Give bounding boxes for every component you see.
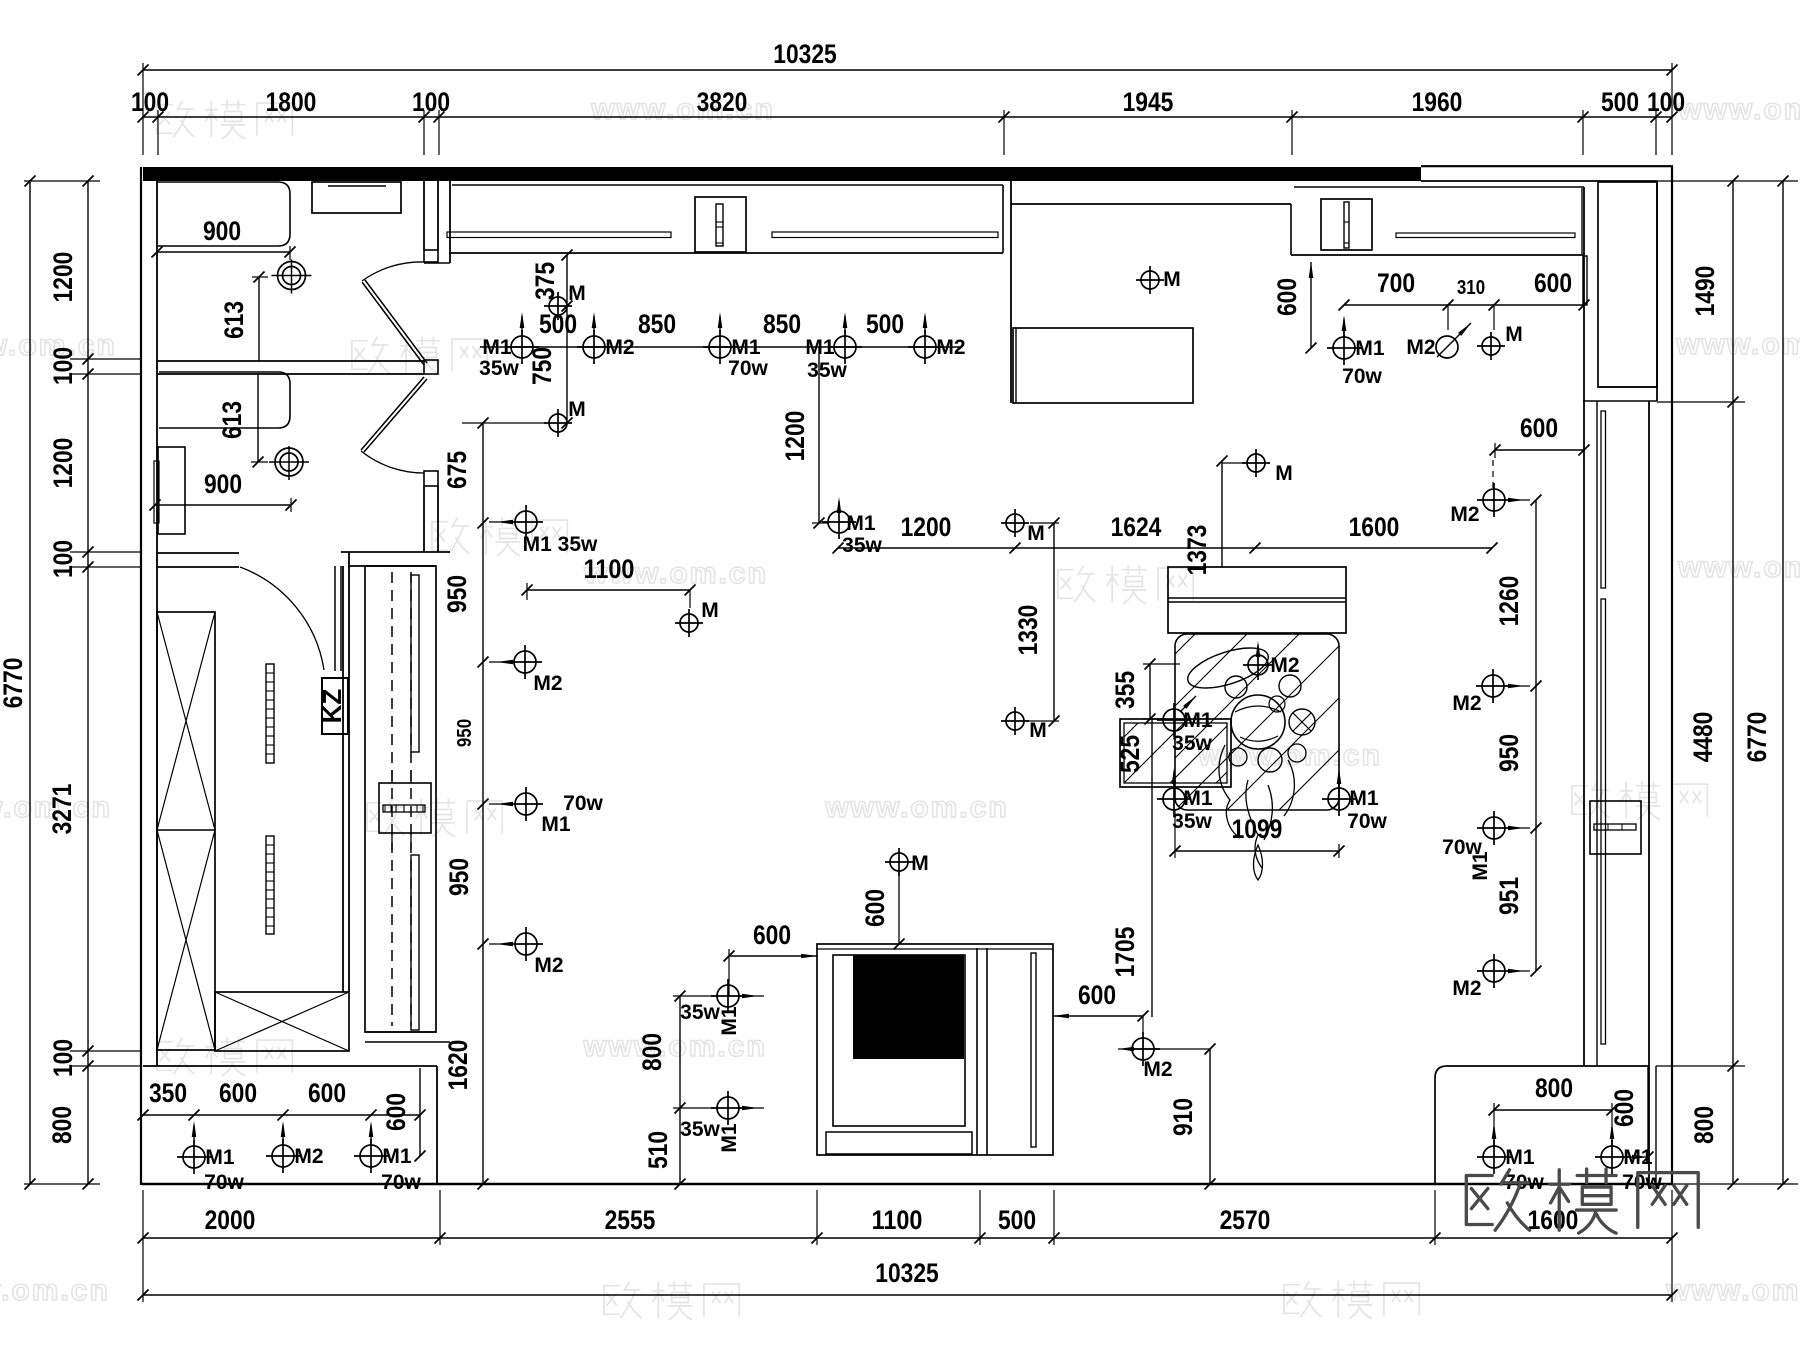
- svg-text:M: M: [1029, 719, 1047, 742]
- lamp M1 35w sofa-b: [1163, 788, 1185, 810]
- wall entry right x437: [436, 1066, 438, 1184]
- sofa sideboard table: [1168, 567, 1346, 633]
- svg-text:800: 800: [637, 1033, 667, 1071]
- lamp M2 right-col-a: [1483, 489, 1505, 511]
- lamp M 1100: [680, 614, 698, 632]
- dim 600 cab vertical: [1310, 262, 1312, 348]
- svg-text:M: M: [568, 282, 586, 305]
- lamp M2 fp: [1132, 1038, 1154, 1060]
- watermark dark large: [1466, 1169, 1698, 1233]
- svg-text:2555: 2555: [605, 1205, 656, 1235]
- svg-text:1200: 1200: [48, 438, 78, 489]
- dim 910 vertical: [1209, 1049, 1211, 1184]
- lamp M chain1: [1006, 514, 1024, 532]
- svg-text:100: 100: [412, 87, 450, 117]
- svg-text:700: 700: [1377, 268, 1415, 298]
- svg-text:M1: M1: [718, 1123, 741, 1152]
- cabinet block left (above hall): [424, 262, 450, 264]
- room2 vanity: [158, 447, 185, 534]
- svg-text:M1: M1: [846, 512, 875, 535]
- tv unit divider: [976, 948, 978, 1155]
- dim entry chain y1115: [143, 1114, 420, 1116]
- cabinet north wall counter: [452, 184, 1003, 186]
- svg-text:M: M: [1163, 268, 1181, 291]
- svg-text:M1: M1: [541, 813, 570, 836]
- cabinet shelf strip right: [772, 232, 998, 238]
- svg-text:1100: 1100: [584, 554, 635, 584]
- display cabinet return box: [1583, 256, 1587, 305]
- closet dresser bar: [383, 805, 425, 812]
- svg-text:M: M: [1275, 462, 1293, 485]
- wall partition room2/hall left: [157, 552, 239, 554]
- svg-text:4480: 4480: [1688, 712, 1718, 763]
- dim 1330 vertical: [1053, 523, 1055, 721]
- display cabinet right top: [1294, 186, 1584, 188]
- bench wide X-hatch: [215, 992, 349, 1051]
- dim 613 room1: [258, 277, 260, 361]
- svg-text:www.om.cn: www.om.cn: [1675, 328, 1800, 361]
- dim 600 fp right: [1053, 1015, 1143, 1017]
- svg-text:3820: 3820: [697, 87, 748, 117]
- svg-text:1099: 1099: [1232, 814, 1283, 844]
- lamp M kitchen-left: [549, 297, 567, 315]
- svg-text:1624: 1624: [1111, 512, 1162, 542]
- shelf ladder strip upper: [266, 664, 274, 763]
- dim top-right chain y305: [1344, 304, 1584, 306]
- dim total left 6770: [29, 181, 31, 1184]
- tv black screen: [853, 955, 964, 1059]
- right wall light strip lower: [1601, 599, 1606, 1044]
- dim left chain line: [87, 181, 89, 1184]
- wall kitchen x1011: [1010, 181, 1012, 403]
- svg-text:M1: M1: [1183, 787, 1212, 810]
- wall right inner lower: [1648, 401, 1650, 1185]
- lamp M1 35w sofa-a: [1163, 709, 1185, 731]
- wall partition hall top right: [341, 551, 450, 553]
- svg-text:35w: 35w: [842, 534, 882, 557]
- wall bottom exterior: [142, 1183, 1673, 1186]
- svg-text:600: 600: [219, 1078, 257, 1108]
- dim 600 fireplace left: [729, 955, 817, 957]
- svg-text:M1: M1: [205, 1146, 234, 1169]
- closet sliding-door unit box: [365, 566, 436, 1032]
- svg-text:M: M: [1505, 323, 1523, 346]
- lamp M1 35w fp-b: [717, 1097, 739, 1119]
- lamp M1 35w c: [834, 336, 856, 358]
- wall right inner upper: [1656, 181, 1658, 401]
- svg-text:675: 675: [442, 451, 472, 489]
- svg-text:1600: 1600: [1349, 512, 1400, 542]
- lamp M2 entry: [272, 1145, 294, 1167]
- door room2 leaf: [361, 377, 427, 452]
- svg-text:100: 100: [48, 1039, 78, 1077]
- dim 900 room2: [155, 504, 291, 506]
- cabinet center door: [695, 197, 746, 252]
- svg-text:M: M: [568, 398, 586, 421]
- right wall control bar: [1594, 824, 1636, 830]
- closet door panel upper: [411, 575, 419, 752]
- closet tall X-hatch wardrobe: [157, 612, 215, 1050]
- wall top exterior (solid): [143, 167, 1421, 181]
- dim 375 vertical: [566, 255, 568, 423]
- door jamb block bottom: [424, 471, 438, 486]
- side table 525 square: [1120, 719, 1231, 787]
- dim total right 6770: [1782, 181, 1784, 1184]
- svg-text:M1: M1: [1505, 1146, 1534, 1169]
- kitchen cabinet face: [1011, 203, 1291, 205]
- plant drop shape: [1254, 845, 1263, 880]
- lamp M kitchen: [1141, 271, 1159, 289]
- chair circle with cross: [1289, 709, 1315, 735]
- dim chain y548: [838, 547, 1492, 549]
- svg-text:500: 500: [998, 1205, 1036, 1235]
- svg-text:3271: 3271: [47, 784, 77, 835]
- svg-text:70w: 70w: [728, 357, 768, 380]
- svg-text:510: 510: [643, 1131, 673, 1169]
- closet door panel lower: [411, 855, 419, 1030]
- right wall control box: [1590, 801, 1641, 854]
- lamp M1 70w entry-a: [183, 1146, 205, 1168]
- svg-text:100: 100: [1647, 87, 1685, 117]
- entry niche box: [1598, 182, 1657, 387]
- svg-text:613: 613: [217, 401, 247, 439]
- wall top-right thin outer: [1421, 165, 1673, 167]
- svg-text:1960: 1960: [1412, 87, 1463, 117]
- wall partition rooms (y361): [157, 360, 424, 362]
- svg-text:950: 950: [442, 575, 472, 613]
- svg-text:100: 100: [48, 540, 78, 578]
- svg-text:M: M: [701, 599, 719, 622]
- svg-text:600: 600: [1272, 278, 1302, 316]
- dim 800 fp vertical: [679, 996, 681, 1108]
- svg-text:www.om.cn: www.om.cn: [0, 1274, 110, 1307]
- door jamb block top: [424, 250, 438, 262]
- svg-text:www.om.cn: www.om.cn: [1197, 739, 1382, 772]
- svg-text:100: 100: [48, 347, 78, 385]
- svg-text:950: 950: [454, 719, 476, 747]
- display cabinet door handle: [1344, 202, 1349, 248]
- svg-text:www.om.cn: www.om.cn: [1677, 93, 1800, 126]
- lamp M chain2: [1247, 454, 1265, 472]
- closet dresser posts: [391, 770, 393, 783]
- tv unit outer box: [817, 944, 1053, 1155]
- svg-text:M1: M1: [1623, 1146, 1652, 1169]
- svg-text:70w: 70w: [1347, 810, 1387, 833]
- cabinet shelf strip left: [447, 232, 671, 238]
- closet dresser box: [379, 783, 431, 833]
- wall living west x450: [449, 181, 451, 263]
- display cabinet door: [1321, 199, 1372, 250]
- door room2 swing arc: [361, 451, 424, 473]
- svg-text:KZ: KZ: [317, 689, 347, 724]
- svg-text:35w: 35w: [1172, 810, 1212, 833]
- svg-text:1373: 1373: [1182, 525, 1212, 576]
- right wall light strip upper: [1601, 411, 1606, 588]
- svg-text:M2: M2: [936, 336, 965, 359]
- svg-text:500: 500: [866, 309, 904, 339]
- display cabinet shelf strip: [1396, 233, 1575, 238]
- lamp M2 right-col-b: [1482, 675, 1504, 697]
- svg-text:850: 850: [638, 309, 676, 339]
- svg-text:70w: 70w: [1342, 365, 1382, 388]
- svg-text:www.om.cn: www.om.cn: [1665, 1274, 1800, 1307]
- svg-text:750: 750: [527, 347, 557, 385]
- svg-text:M1: M1: [731, 336, 760, 359]
- dim total top 10325: [143, 69, 1672, 71]
- svg-text:1705: 1705: [1110, 927, 1140, 978]
- svg-text:900: 900: [203, 216, 241, 246]
- svg-text:1200: 1200: [48, 252, 78, 303]
- svg-text:70w: 70w: [563, 792, 603, 815]
- svg-text:800: 800: [1689, 1106, 1719, 1144]
- svg-text:613: 613: [219, 301, 249, 339]
- svg-text:M2: M2: [1450, 503, 1479, 526]
- dim right chain line: [1732, 181, 1734, 1184]
- door hall swing arc: [240, 567, 324, 670]
- svg-text:M2: M2: [605, 336, 634, 359]
- svg-text:M: M: [911, 852, 929, 875]
- svg-text:70w: 70w: [381, 1171, 421, 1194]
- lamp M2 left-col: [514, 651, 536, 673]
- entry niche bottom lines: [1598, 386, 1657, 388]
- dim porch 800: [1494, 1109, 1612, 1111]
- svg-text:2570: 2570: [1220, 1205, 1271, 1235]
- svg-text:35w: 35w: [807, 359, 847, 382]
- lamp M1 35w fp-a: [717, 985, 739, 1007]
- svg-text:M2: M2: [1452, 692, 1481, 715]
- closet track dashed right: [410, 572, 412, 1026]
- svg-text:M1: M1: [1349, 787, 1378, 810]
- svg-text:M: M: [1027, 522, 1045, 545]
- room1 vanity counter: [157, 182, 290, 246]
- dim 510 fp vertical: [679, 1108, 681, 1184]
- door hall leaf: [334, 566, 336, 671]
- svg-text:600: 600: [860, 889, 890, 927]
- column KZ box: [322, 678, 348, 734]
- room1 ceiling lamp double-circle: [278, 262, 306, 290]
- lamp M1 70w sofa: [1328, 788, 1350, 810]
- lamp M1 35w mid: [828, 511, 850, 533]
- svg-text:1260: 1260: [1494, 576, 1524, 627]
- svg-text:35w: 35w: [479, 357, 519, 380]
- svg-text:350: 350: [149, 1078, 187, 1108]
- svg-text:1620: 1620: [443, 1040, 473, 1091]
- porch rounded corner: [1435, 1066, 1649, 1184]
- svg-text:900: 900: [204, 469, 242, 499]
- dim 1099: [1175, 850, 1339, 852]
- svg-text:35w: 35w: [680, 1118, 720, 1141]
- svg-text:10325: 10325: [875, 1258, 938, 1288]
- svg-text:355: 355: [1110, 671, 1140, 709]
- lamp M2 sofa: [1248, 655, 1268, 675]
- dim 1200 vertical: [818, 347, 820, 523]
- dim porch 600 vertical: [1647, 1066, 1649, 1157]
- dim 600 entry vertical: [419, 1068, 421, 1156]
- lamp M 1330: [1006, 712, 1024, 730]
- door jamb block middle: [424, 360, 438, 374]
- lamp M2 right-col-c: [1483, 960, 1505, 982]
- dim top chain line: [143, 116, 1672, 118]
- lamp M1 35w a: [511, 336, 533, 358]
- svg-text:1945: 1945: [1123, 87, 1174, 117]
- svg-text:100: 100: [131, 87, 169, 117]
- svg-text:www.om.cn: www.om.cn: [1677, 551, 1800, 584]
- svg-text:1490: 1490: [1690, 266, 1720, 317]
- dim right col x1536: [1535, 500, 1537, 971]
- lamp M2 arrow top-right: [1436, 336, 1458, 358]
- svg-text:600: 600: [753, 920, 791, 950]
- svg-text:600: 600: [381, 1093, 411, 1131]
- svg-text:M2: M2: [294, 1145, 323, 1168]
- svg-text:10325: 10325: [773, 39, 836, 69]
- dim bottom chain line: [143, 1237, 1672, 1239]
- svg-text:310: 310: [1457, 277, 1485, 299]
- svg-text:M2: M2: [534, 954, 563, 977]
- svg-text:M2: M2: [533, 672, 562, 695]
- svg-text:M2: M2: [1452, 977, 1481, 1000]
- tv unit top line: [817, 948, 1053, 950]
- room2 bench: [159, 372, 290, 428]
- svg-text:800: 800: [1535, 1073, 1573, 1103]
- svg-text:600: 600: [1078, 980, 1116, 1010]
- plant leaves squiggle: [1219, 745, 1294, 868]
- tv unit inner frame: [833, 955, 965, 1126]
- svg-text:850: 850: [763, 309, 801, 339]
- svg-text:2000: 2000: [205, 1205, 256, 1235]
- svg-text:910: 910: [1168, 1098, 1198, 1136]
- chair circles lower: [1229, 748, 1247, 766]
- dim 355 vertical: [1149, 664, 1151, 719]
- lamp M1 35w left-col: [515, 511, 537, 533]
- right wall inner line x1584: [1583, 401, 1585, 1066]
- dim 1705 vertical: [1151, 719, 1153, 1017]
- svg-text:375: 375: [530, 262, 560, 300]
- svg-text:70w: 70w: [204, 1171, 244, 1194]
- svg-text:M1: M1: [805, 336, 834, 359]
- lamp M above fireplace: [890, 853, 908, 871]
- svg-text:1200: 1200: [780, 411, 810, 462]
- lamp M1 70w entry-b: [360, 1145, 382, 1167]
- dim lamp row line y347: [480, 346, 960, 348]
- svg-text:M1: M1: [1183, 709, 1212, 732]
- lamp M1 70w top-right: [1333, 337, 1355, 359]
- dim 900 room1: [157, 251, 290, 253]
- door room1 swing arc: [362, 262, 424, 281]
- closet track dashed left: [391, 572, 393, 1026]
- door room1 leaf: [362, 280, 427, 365]
- tv unit side light bar: [1031, 953, 1036, 1147]
- svg-text:1200: 1200: [901, 512, 952, 542]
- svg-text:600: 600: [308, 1078, 346, 1108]
- svg-text:M1: M1: [1355, 337, 1384, 360]
- svg-text:600: 600: [1520, 413, 1558, 443]
- lamp M1 70w porch-a: [1483, 1146, 1505, 1168]
- lamp M top-right: [1482, 337, 1500, 355]
- closet bottom lines: [365, 1031, 436, 1033]
- lamp M2 a: [583, 336, 605, 358]
- svg-text:M1: M1: [382, 1145, 411, 1168]
- room2 ceiling lamp double-circle: [275, 448, 303, 476]
- wall closet/hall x343: [342, 566, 344, 992]
- round table with chairs: [1231, 695, 1285, 749]
- porch inner line: [1655, 1066, 1657, 1184]
- right wall inner line x1597: [1596, 401, 1598, 1066]
- wall hall east lower segment: [423, 486, 425, 552]
- svg-text:M2: M2: [1406, 336, 1435, 359]
- svg-text:1800: 1800: [266, 87, 317, 117]
- lamp M mid: [549, 414, 567, 432]
- dim 1373 vertical: [1221, 461, 1223, 567]
- dim left inner chain x483: [482, 423, 484, 1184]
- svg-text:1100: 1100: [872, 1205, 923, 1235]
- dim total bottom 10325: [143, 1294, 1672, 1296]
- svg-text:6770: 6770: [0, 658, 28, 709]
- svg-text:1330: 1330: [1013, 605, 1043, 656]
- svg-text:M1: M1: [1469, 851, 1492, 880]
- tv unit bottom drawer: [826, 1132, 972, 1154]
- svg-text:35w: 35w: [1172, 732, 1212, 755]
- dim 613 room2: [257, 374, 259, 462]
- wall left exterior: [140, 167, 142, 1185]
- kitchen table: [1013, 328, 1193, 403]
- dim 600 top-right-a: [1495, 449, 1584, 451]
- svg-text:M1: M1: [482, 336, 511, 359]
- svg-text:35w: 35w: [680, 1001, 720, 1024]
- svg-text:951: 951: [1494, 877, 1524, 915]
- svg-text:1600: 1600: [1528, 1205, 1579, 1235]
- wall hall east x424: [423, 181, 425, 250]
- svg-text:M1 35w: M1 35w: [523, 533, 598, 556]
- svg-text:950: 950: [1494, 734, 1524, 772]
- plant ellipse: [1183, 640, 1273, 696]
- svg-text:525: 525: [1115, 735, 1145, 773]
- svg-text:600: 600: [1534, 268, 1572, 298]
- svg-text:M2: M2: [1143, 1058, 1172, 1081]
- wall entry top y1066: [143, 1065, 437, 1067]
- dim 1100: [527, 589, 690, 591]
- lamp M1 70w left-col: [515, 793, 537, 815]
- svg-text:www.om.cn: www.om.cn: [824, 791, 1009, 824]
- svg-text:800: 800: [47, 1106, 77, 1144]
- lamp M1 70w porch-b: [1601, 1146, 1623, 1168]
- lamp M2 left-col2: [515, 933, 537, 955]
- svg-text:500: 500: [1601, 87, 1639, 117]
- svg-text:M1: M1: [718, 1006, 741, 1035]
- svg-text:6770: 6770: [1742, 712, 1772, 763]
- cabinet center door handle: [716, 204, 723, 246]
- room1 wall cabinet: [312, 182, 401, 213]
- dim 600 fireplace vertical: [898, 872, 900, 944]
- lamp M1 70w right-col: [1483, 817, 1505, 839]
- lamp M1 70w b: [709, 336, 731, 358]
- lamp M2 b: [914, 336, 936, 358]
- svg-text:600: 600: [1609, 1089, 1639, 1127]
- wall right outer: [1671, 166, 1673, 1185]
- shelf ladder strip lower: [266, 836, 274, 934]
- svg-text:950: 950: [444, 858, 474, 896]
- svg-text:M2: M2: [1270, 654, 1299, 677]
